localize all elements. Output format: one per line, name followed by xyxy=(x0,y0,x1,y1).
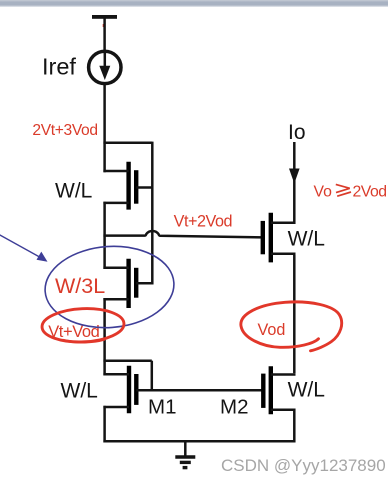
wire node A to gate rail xyxy=(103,142,152,145)
wire Io output with arrow xyxy=(289,142,300,224)
wire current source to node A xyxy=(103,84,106,173)
wire M1 diode connection horizontal xyxy=(103,359,151,362)
annotation blue ellipse around W/3L xyxy=(42,242,176,332)
transistor W/3L (middle left) xyxy=(103,259,153,308)
transistor M1 xyxy=(103,366,136,414)
node label Vo >= 2Vod xyxy=(314,183,387,200)
svg-text:W/L: W/L xyxy=(288,379,325,402)
wire W/3L source to M1 drain, node Vt+Vod xyxy=(103,298,106,375)
svg-text:W/L: W/L xyxy=(61,380,98,403)
transistor top-left W/L (diode-connected) xyxy=(103,162,153,210)
wire W/L source to W/3L drain xyxy=(103,202,106,269)
wire M2 source to ground rail xyxy=(293,409,296,443)
gate rail wire (node A down to W/3L gate) xyxy=(151,142,154,285)
wire M2 drain to cascode source xyxy=(293,255,296,373)
svg-text:2Vod: 2Vod xyxy=(353,183,387,200)
svg-text:Iref: Iref xyxy=(42,54,76,80)
svg-text:Io: Io xyxy=(288,121,306,144)
svg-text:W/3L: W/3L xyxy=(55,274,105,298)
wire gates M1 to M2 xyxy=(136,389,263,392)
svg-text:2Vt+3Vod: 2Vt+3Vod xyxy=(32,122,97,139)
ground xyxy=(175,441,195,467)
annotation red loop around Vod xyxy=(241,302,342,351)
power supply bar xyxy=(92,15,117,19)
svg-text:M1: M1 xyxy=(148,396,176,419)
svg-text:Vt+2Vod: Vt+2Vod xyxy=(174,212,233,230)
svg-text:W/L: W/L xyxy=(288,228,325,251)
wire M1 source down xyxy=(103,406,106,443)
transistor cascode W/L (top right) xyxy=(263,213,296,263)
svg-text:M2: M2 xyxy=(220,396,248,419)
wire node Vt+2Vod with hop over gate rail xyxy=(103,231,262,237)
ground rail wire xyxy=(103,440,295,443)
svg-text:Vod: Vod xyxy=(258,321,286,339)
wire supply to current source xyxy=(103,18,106,52)
current source Iref xyxy=(89,51,121,83)
svg-text:Vo: Vo xyxy=(314,183,333,200)
transistor M2 xyxy=(263,366,295,414)
svg-text:W/L: W/L xyxy=(55,180,92,203)
wire M1 diode connection vertical xyxy=(151,361,154,391)
annotation red ellipse around Vt+Vod xyxy=(41,307,124,344)
red dot artifact xyxy=(103,24,106,27)
annotation blue arrow xyxy=(0,234,48,262)
svg-text:CSDN @Yyy1237890: CSDN @Yyy1237890 xyxy=(221,456,386,475)
